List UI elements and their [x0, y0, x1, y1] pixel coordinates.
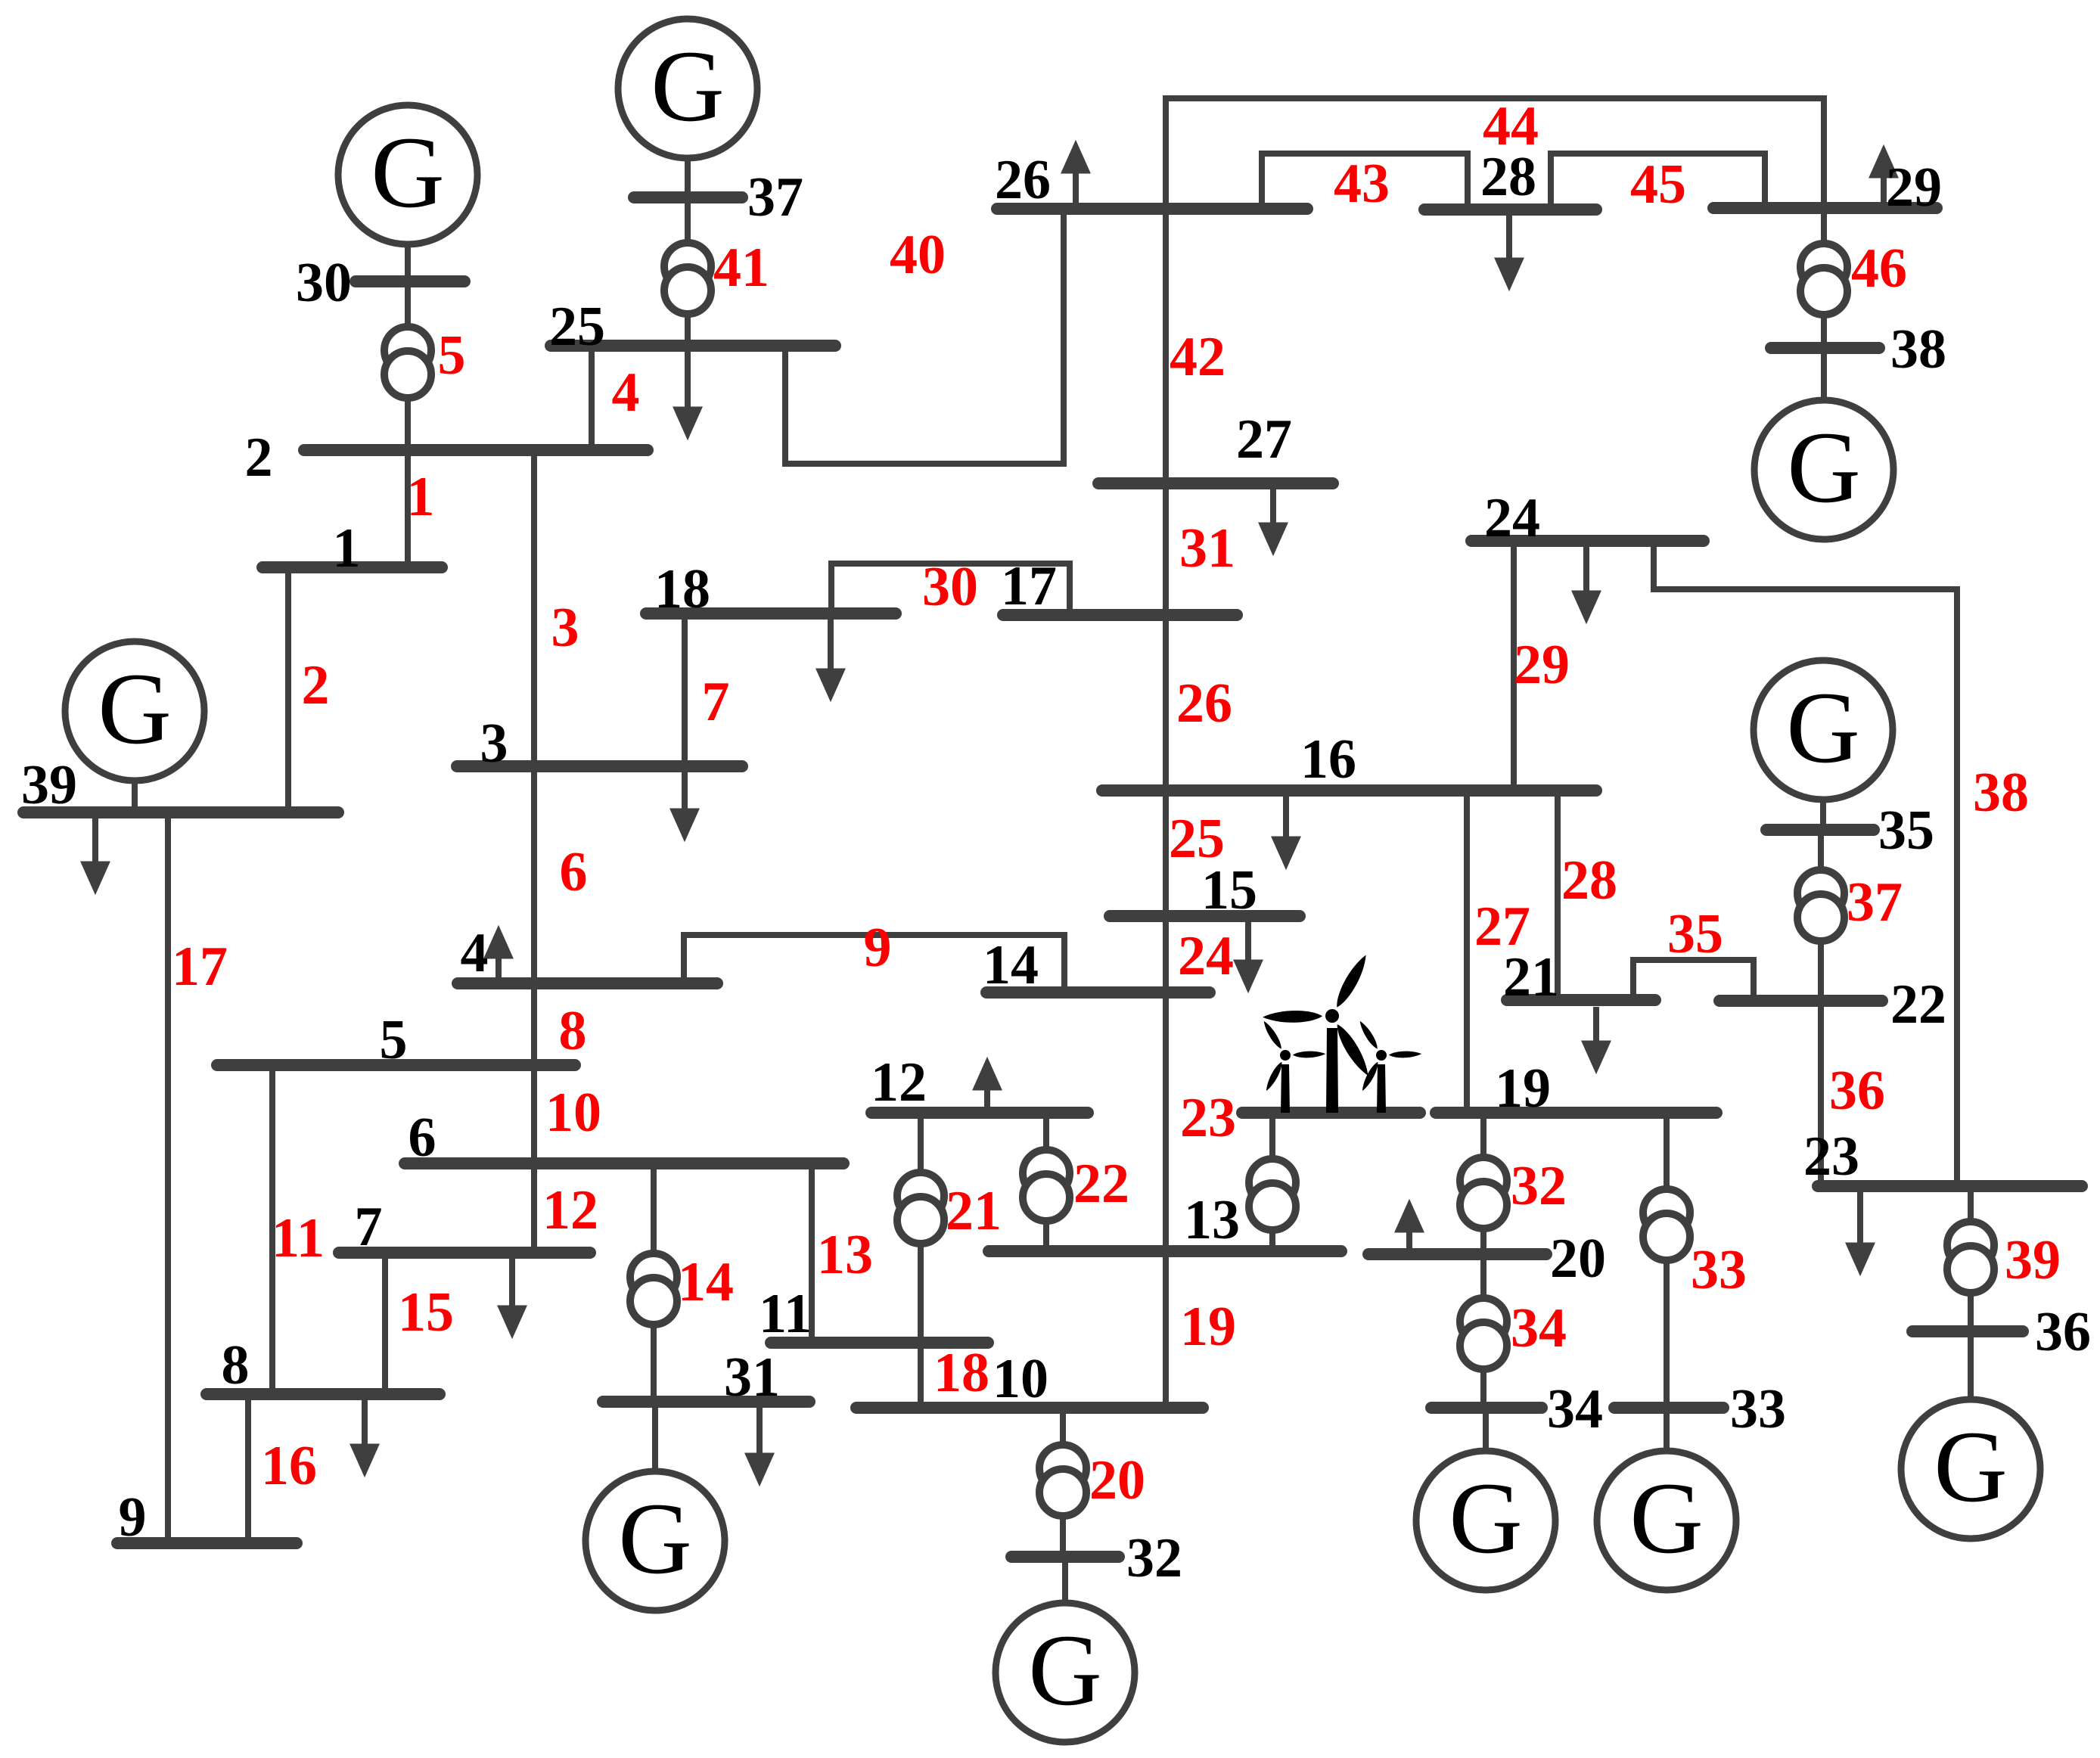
svg-text:23: 23	[1803, 1126, 1859, 1188]
svg-text:26: 26	[1176, 672, 1232, 735]
svg-text:23: 23	[1180, 1087, 1236, 1149]
svg-text:10: 10	[993, 1348, 1048, 1410]
svg-text:20: 20	[1089, 1449, 1145, 1511]
svg-text:42: 42	[1170, 326, 1226, 388]
svg-text:35: 35	[1878, 800, 1934, 862]
svg-text:19: 19	[1180, 1296, 1236, 1358]
svg-text:40: 40	[890, 224, 946, 286]
svg-text:28: 28	[1480, 146, 1536, 208]
svg-text:17: 17	[1001, 555, 1057, 617]
svg-text:45: 45	[1630, 154, 1686, 216]
svg-text:24: 24	[1484, 487, 1540, 549]
svg-text:21: 21	[946, 1180, 1002, 1242]
svg-text:15: 15	[1201, 859, 1257, 921]
svg-text:9: 9	[864, 917, 892, 979]
svg-text:34: 34	[1547, 1378, 1603, 1440]
svg-text:46: 46	[1851, 238, 1907, 300]
svg-text:29: 29	[1886, 157, 1942, 219]
svg-text:8: 8	[559, 1000, 587, 1062]
svg-text:G: G	[1629, 1462, 1704, 1575]
svg-text:16: 16	[261, 1435, 317, 1497]
svg-text:19: 19	[1495, 1058, 1551, 1120]
svg-text:22: 22	[1073, 1153, 1129, 1215]
svg-text:38: 38	[1890, 318, 1946, 380]
svg-text:11: 11	[759, 1283, 812, 1345]
svg-text:35: 35	[1667, 903, 1723, 965]
svg-text:G: G	[1449, 1462, 1523, 1575]
svg-text:21: 21	[1503, 946, 1559, 1008]
svg-text:30: 30	[296, 252, 352, 314]
svg-text:18: 18	[654, 558, 710, 620]
svg-text:2: 2	[302, 654, 330, 716]
svg-text:37: 37	[1847, 871, 1903, 933]
svg-text:G: G	[618, 1483, 692, 1595]
svg-text:6: 6	[560, 841, 588, 903]
svg-text:27: 27	[1236, 408, 1292, 471]
svg-text:39: 39	[21, 754, 77, 816]
svg-text:28: 28	[1561, 849, 1617, 912]
svg-text:12: 12	[542, 1179, 598, 1241]
svg-text:24: 24	[1178, 925, 1234, 987]
svg-text:17: 17	[172, 936, 228, 998]
svg-text:39: 39	[2005, 1229, 2061, 1291]
svg-text:8: 8	[222, 1334, 250, 1396]
svg-text:G: G	[1934, 1411, 2008, 1523]
svg-text:36: 36	[2035, 1301, 2091, 1363]
svg-text:7: 7	[702, 671, 730, 733]
svg-text:G: G	[651, 30, 725, 143]
svg-text:G: G	[371, 116, 445, 229]
svg-text:14: 14	[983, 934, 1039, 996]
svg-text:10: 10	[545, 1082, 601, 1144]
svg-text:26: 26	[995, 149, 1051, 211]
svg-text:7: 7	[355, 1196, 383, 1258]
svg-text:G: G	[98, 653, 172, 766]
svg-text:5: 5	[380, 1009, 408, 1071]
svg-text:G: G	[1786, 672, 1860, 784]
svg-text:15: 15	[398, 1281, 454, 1343]
svg-text:4: 4	[461, 922, 489, 984]
svg-text:1: 1	[333, 517, 361, 579]
svg-text:31: 31	[1179, 517, 1235, 579]
svg-text:3: 3	[551, 597, 579, 659]
svg-text:G: G	[1787, 412, 1861, 524]
svg-text:1: 1	[407, 466, 435, 528]
svg-text:33: 33	[1730, 1378, 1786, 1440]
svg-text:12: 12	[871, 1051, 927, 1114]
svg-text:37: 37	[747, 166, 803, 228]
svg-text:43: 43	[1334, 153, 1390, 215]
svg-text:11: 11	[272, 1207, 325, 1269]
svg-text:34: 34	[1511, 1297, 1567, 1359]
svg-text:32: 32	[1511, 1155, 1567, 1217]
svg-text:14: 14	[678, 1251, 734, 1313]
svg-text:22: 22	[1890, 974, 1946, 1036]
svg-text:25: 25	[549, 296, 605, 358]
svg-text:2: 2	[245, 427, 273, 489]
svg-text:5: 5	[438, 325, 466, 387]
svg-text:3: 3	[480, 713, 508, 775]
svg-text:38: 38	[1973, 762, 2029, 824]
svg-text:29: 29	[1514, 634, 1570, 696]
svg-text:31: 31	[724, 1346, 780, 1409]
svg-text:32: 32	[1126, 1527, 1182, 1589]
svg-text:G: G	[1028, 1614, 1102, 1727]
svg-text:4: 4	[612, 362, 640, 424]
svg-text:41: 41	[713, 237, 769, 299]
svg-text:36: 36	[1829, 1060, 1885, 1122]
svg-text:18: 18	[934, 1342, 989, 1404]
svg-text:9: 9	[119, 1486, 147, 1548]
svg-text:13: 13	[1184, 1189, 1240, 1251]
svg-text:16: 16	[1300, 728, 1356, 790]
svg-text:6: 6	[409, 1107, 436, 1169]
svg-text:33: 33	[1691, 1239, 1747, 1301]
svg-text:20: 20	[1550, 1228, 1606, 1290]
svg-text:13: 13	[817, 1224, 873, 1286]
svg-text:30: 30	[922, 556, 978, 618]
